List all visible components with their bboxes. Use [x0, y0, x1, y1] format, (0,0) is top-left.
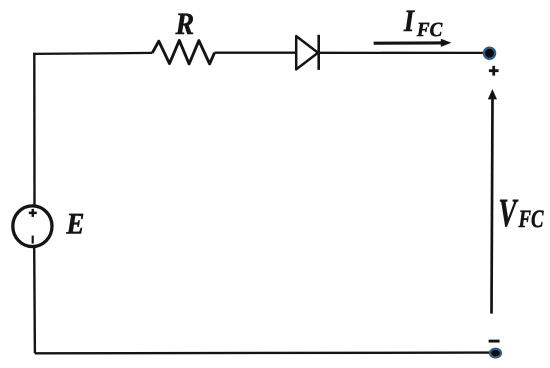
diode D1 cathode bar [317, 35, 320, 70]
svg-text:R: R [175, 6, 195, 41]
diode D1 triangle [296, 36, 318, 69]
label V_FC [498, 190, 543, 235]
current arrow I_FC [374, 39, 452, 47]
plus polarity inside source [29, 209, 37, 217]
node positive terminal dot [484, 48, 495, 59]
node negative terminal dot [490, 349, 501, 358]
label I_FC [403, 3, 443, 41]
svg-text:E: E [66, 208, 85, 241]
resistor R [152, 40, 214, 64]
wire bottom [35, 351, 490, 354]
plus terminal label [489, 66, 499, 76]
svg-text:I: I [403, 3, 415, 38]
svg-text:FC: FC [518, 206, 544, 233]
minus terminal label [489, 340, 500, 343]
svg-text:V: V [498, 190, 518, 235]
minus polarity mark inside source [32, 236, 34, 244]
voltage source E circle [13, 206, 52, 247]
wire left vertical bottom section [33, 248, 36, 354]
wire diode to positive terminal [319, 52, 486, 54]
voltage arrow V_FC head [488, 89, 497, 99]
wire left vertical top section [33, 53, 36, 206]
wire top segment from corner to resistor [33, 53, 152, 54]
svg-text:FC: FC [416, 19, 443, 41]
wire resistor to diode [215, 52, 297, 54]
voltage arrow V_FC line [492, 98, 493, 314]
